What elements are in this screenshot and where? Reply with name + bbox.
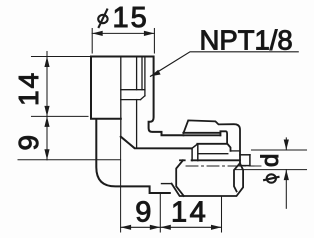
short ledge left of hex	[162, 183, 172, 185]
left dimensions 14 and 9: extension and dimension lines	[32, 52, 92, 160]
extension line from inner corner down to bottom dimension	[120, 137, 122, 232]
sleeve front plate top edge	[197, 143, 227, 145]
hex inner left contour	[176, 160, 184, 196]
hex top edge (broken at post)	[180, 159, 185, 161]
phi d lower arrow	[284, 170, 289, 181]
label phi d (rotated)	[257, 154, 284, 183]
dimension phi15 right arrow	[144, 31, 155, 36]
elbow fitting body: upper threaded-port block outline	[91, 57, 183, 136]
phi d upper arrow	[284, 140, 289, 151]
svg-text:9: 9	[13, 133, 44, 151]
NPT1/8 female thread lines inside block	[121, 57, 145, 149]
sleeve lower edge	[198, 153, 227, 155]
leader line for NPT1/8 callout	[151, 52, 299, 77]
label phi15	[98, 2, 149, 34]
bottom dimensions 9 and 14: extension and dimension lines	[121, 195, 222, 233]
svg-text:d: d	[257, 154, 284, 167]
cap bottom edge	[183, 132, 220, 134]
nut wrench hexagon	[162, 160, 244, 196]
svg-text:14: 14	[13, 71, 44, 106]
hex outer contour with corner chamfers	[172, 163, 244, 196]
nut nose ring profile	[220, 131, 230, 151]
compression nut rear flange (cap) and nut top outline	[183, 120, 240, 163]
dimension phi15 left arrow	[92, 31, 103, 36]
left dimension arrows	[44, 57, 49, 68]
svg-text:14: 14	[171, 197, 208, 229]
hex inner right contour	[234, 163, 240, 191]
bottom dimension arrows	[121, 225, 132, 230]
svg-text:NPT1/8: NPT1/8	[200, 25, 293, 56]
elbow body left face, bottom fillet and stepped bottom edge	[96, 120, 191, 194]
right dimension phi d: extension and dimension lines	[234, 138, 307, 208]
tube stub protruding from nut	[240, 155, 250, 166]
bore left silhouette line	[120, 57, 122, 137]
svg-text:15: 15	[113, 2, 149, 34]
svg-text:9: 9	[135, 197, 151, 229]
horizontal port center line, left segment	[18, 159, 121, 161]
inner corner chamfer and horizontal limb top edge	[121, 137, 192, 149]
post between sleeve and hex	[192, 144, 198, 160]
leader arrowhead	[151, 70, 161, 77]
sleeve top edge	[184, 134, 221, 136]
dimension phi15: extension and dimension lines	[92, 29, 154, 54]
nut bore top edge	[231, 150, 241, 152]
horizontal port center line, dash-dot right segment	[186, 165, 263, 167]
